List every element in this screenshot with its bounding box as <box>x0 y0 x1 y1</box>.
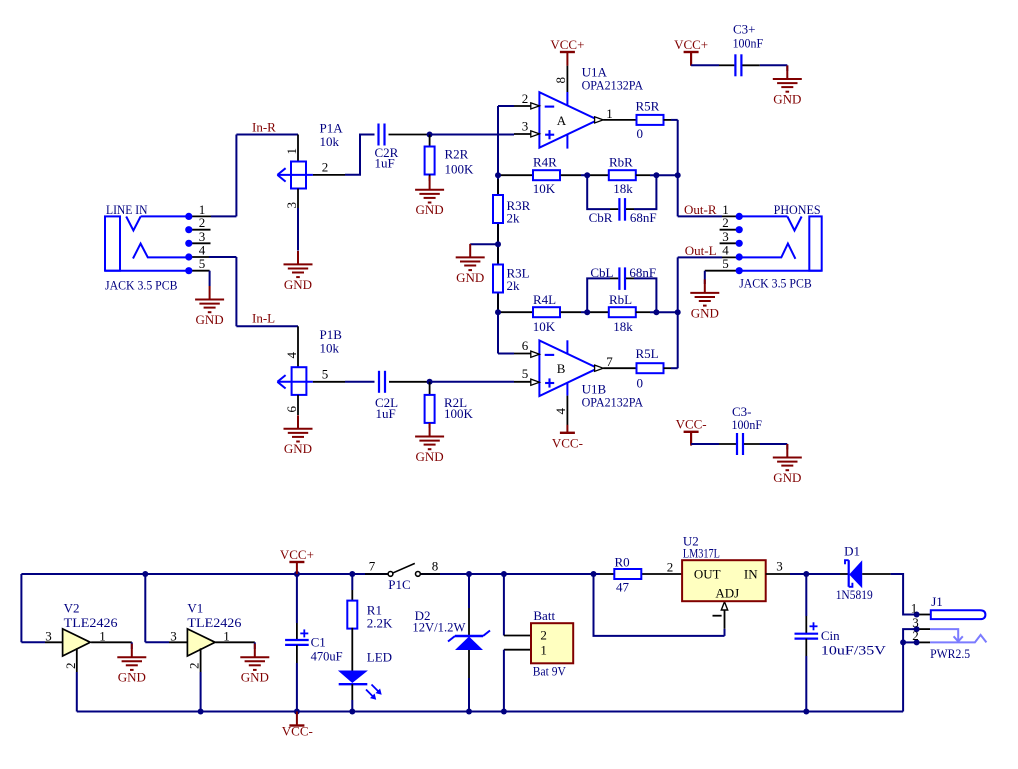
svg-text:3: 3 <box>284 202 299 209</box>
svg-text:R4R: R4R <box>533 155 557 170</box>
svg-text:GND: GND <box>284 277 312 292</box>
svg-text:VCC-: VCC- <box>676 417 707 432</box>
svg-text:12V/1.2W: 12V/1.2W <box>412 619 466 634</box>
svg-text:18k: 18k <box>613 181 633 196</box>
svg-text:IN: IN <box>744 567 758 582</box>
svg-text:3: 3 <box>45 629 52 644</box>
svg-text:10K: 10K <box>533 319 556 334</box>
svg-text:1uF: 1uF <box>376 406 396 421</box>
svg-text:0: 0 <box>637 376 644 391</box>
svg-text:ADJ: ADJ <box>715 586 739 601</box>
svg-text:0: 0 <box>637 126 644 141</box>
svg-text:2: 2 <box>63 663 78 670</box>
svg-text:Cin: Cin <box>821 628 840 643</box>
svg-text:GND: GND <box>284 441 312 456</box>
svg-text:VCC+: VCC+ <box>280 547 314 562</box>
svg-text:10K: 10K <box>533 181 556 196</box>
svg-text:100K: 100K <box>444 406 474 421</box>
svg-text:2k: 2k <box>507 211 521 226</box>
svg-text:GND: GND <box>118 670 146 685</box>
svg-text:R0: R0 <box>615 555 630 570</box>
svg-text:RbL: RbL <box>609 292 632 307</box>
svg-text:JACK 3.5 PCB: JACK 3.5 PCB <box>105 278 178 293</box>
svg-text:R2R: R2R <box>445 147 469 162</box>
svg-text:GND: GND <box>416 202 444 217</box>
svg-text:2.2K: 2.2K <box>367 616 393 631</box>
svg-text:5: 5 <box>322 367 329 382</box>
svg-text:2: 2 <box>187 663 202 670</box>
svg-text:3: 3 <box>776 559 783 574</box>
svg-text:PWR2.5: PWR2.5 <box>930 646 970 661</box>
svg-text:1: 1 <box>911 600 918 615</box>
svg-text:CbR: CbR <box>589 210 613 225</box>
svg-text:VCC-: VCC- <box>282 723 313 738</box>
svg-text:5: 5 <box>522 366 529 381</box>
svg-text:GND: GND <box>196 312 224 327</box>
svg-text:JACK 3.5 PCB: JACK 3.5 PCB <box>739 275 812 290</box>
svg-text:1: 1 <box>606 106 613 121</box>
svg-text:3: 3 <box>522 118 529 133</box>
svg-text:2: 2 <box>540 628 547 643</box>
svg-text:LINE IN: LINE IN <box>106 202 148 217</box>
svg-text:GND: GND <box>773 470 801 485</box>
svg-text:PHONES: PHONES <box>774 202 821 217</box>
svg-text:P1C: P1C <box>388 577 410 592</box>
svg-text:7: 7 <box>606 354 613 369</box>
svg-text:In-L: In-L <box>252 311 275 326</box>
svg-text:1: 1 <box>223 629 230 644</box>
svg-text:Batt: Batt <box>533 608 555 623</box>
svg-text:3: 3 <box>170 629 177 644</box>
svg-text:2: 2 <box>522 91 529 106</box>
svg-text:In-R: In-R <box>252 120 276 135</box>
svg-text:TLE2426: TLE2426 <box>187 615 242 630</box>
svg-text:4: 4 <box>553 408 568 415</box>
svg-text:LM317L: LM317L <box>683 546 720 561</box>
svg-text:10k: 10k <box>320 134 340 149</box>
svg-text:V1: V1 <box>187 601 203 616</box>
svg-text:GND: GND <box>416 449 444 464</box>
svg-text:R4L: R4L <box>533 292 556 307</box>
svg-text:8: 8 <box>553 77 568 84</box>
svg-text:VCC+: VCC+ <box>674 37 708 52</box>
svg-text:68nF: 68nF <box>630 210 657 225</box>
svg-text:R5L: R5L <box>636 346 659 361</box>
svg-text:J1: J1 <box>931 594 943 609</box>
svg-text:1: 1 <box>284 148 299 155</box>
svg-text:5: 5 <box>199 256 206 271</box>
svg-text:100nF: 100nF <box>733 36 764 51</box>
svg-text:10k: 10k <box>320 341 340 356</box>
svg-text:LED: LED <box>367 650 392 665</box>
svg-text:8: 8 <box>432 559 439 574</box>
svg-text:Out-R: Out-R <box>684 202 717 217</box>
svg-text:1N5819: 1N5819 <box>836 587 873 602</box>
svg-text:GND: GND <box>691 305 719 320</box>
svg-text:R5R: R5R <box>636 99 660 114</box>
svg-text:18k: 18k <box>613 319 633 334</box>
svg-text:V2: V2 <box>64 601 80 616</box>
svg-text:7: 7 <box>369 559 376 574</box>
svg-text:VCC+: VCC+ <box>550 37 584 52</box>
svg-text:4: 4 <box>284 352 299 359</box>
svg-text:CbL: CbL <box>590 265 613 280</box>
svg-text:OPA2132PA: OPA2132PA <box>582 78 644 93</box>
svg-text:GND: GND <box>456 270 484 285</box>
svg-text:C3+: C3+ <box>733 22 756 37</box>
svg-text:1: 1 <box>99 629 106 644</box>
svg-text:10uF/35V: 10uF/35V <box>821 643 887 658</box>
svg-text:100K: 100K <box>445 162 475 177</box>
svg-text:5: 5 <box>722 256 729 271</box>
svg-text:470uF: 470uF <box>311 648 343 663</box>
svg-text:RbR: RbR <box>609 155 633 170</box>
svg-text:GND: GND <box>241 670 269 685</box>
svg-text:TLE2426: TLE2426 <box>64 615 119 630</box>
svg-text:VCC-: VCC- <box>552 435 583 450</box>
svg-text:6: 6 <box>284 406 299 413</box>
svg-text:68nF: 68nF <box>629 265 656 280</box>
svg-text:47: 47 <box>616 579 630 594</box>
svg-text:100nF: 100nF <box>732 417 763 432</box>
svg-text:2k: 2k <box>507 278 521 293</box>
svg-text:Bat 9V: Bat 9V <box>533 663 567 678</box>
svg-text:D1: D1 <box>844 544 860 559</box>
svg-text:B: B <box>557 361 566 376</box>
svg-text:Out-L: Out-L <box>685 243 717 258</box>
svg-text:GND: GND <box>773 91 801 106</box>
svg-text:1: 1 <box>540 643 547 658</box>
svg-text:OPA2132PA: OPA2132PA <box>582 395 644 410</box>
svg-text:6: 6 <box>522 338 529 353</box>
svg-text:2: 2 <box>667 560 674 575</box>
svg-text:1uF: 1uF <box>375 156 395 171</box>
svg-text:A: A <box>557 113 567 128</box>
svg-text:2: 2 <box>322 160 329 175</box>
svg-text:2: 2 <box>912 628 919 643</box>
svg-text:OUT: OUT <box>694 567 721 582</box>
